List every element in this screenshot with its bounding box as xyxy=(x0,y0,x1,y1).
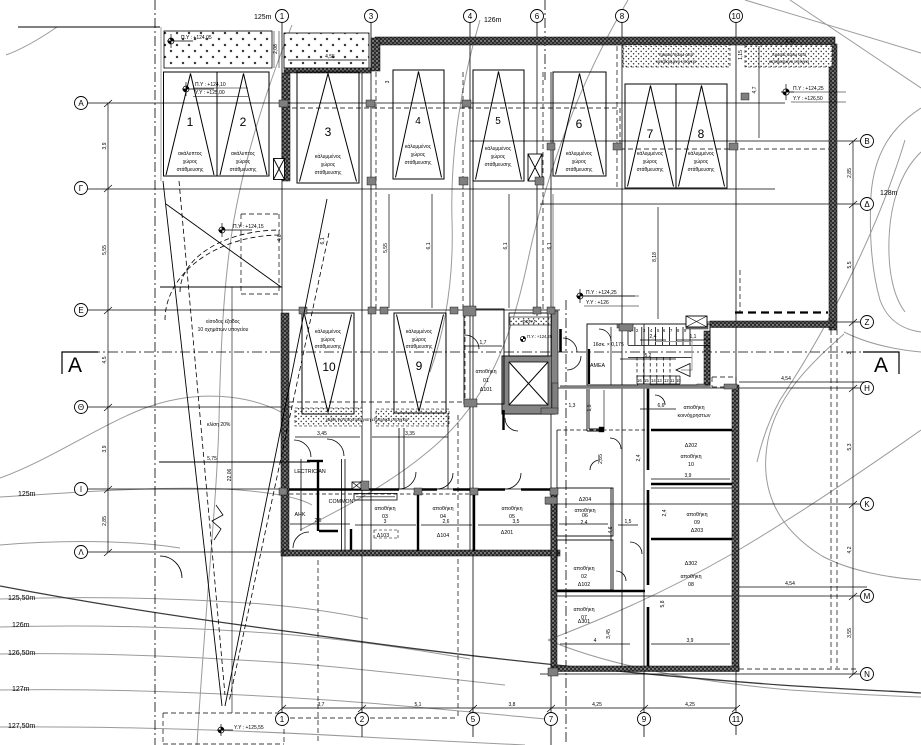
svg-text:4,2: 4,2 xyxy=(847,546,853,553)
svg-text:κατεβασμένο υπόγειο: κατεβασμένο υπόγειο xyxy=(769,59,810,64)
svg-text:Π.Υ : +124,25: Π.Υ : +124,25 xyxy=(586,290,617,296)
svg-text:1: 1 xyxy=(280,12,285,21)
svg-text:Y.Y : +126: Y.Y : +126 xyxy=(586,300,609,306)
svg-text:5,5: 5,5 xyxy=(847,261,853,268)
svg-text:7: 7 xyxy=(647,127,654,141)
svg-text:128m: 128m xyxy=(880,190,898,197)
svg-text:COMMON: COMMON xyxy=(329,499,354,505)
svg-text:2,08: 2,08 xyxy=(273,44,279,54)
svg-text:ακάλυπτος: ακάλυπτος xyxy=(178,150,202,157)
svg-text:στάθμευσης: στάθμευσης xyxy=(637,166,664,173)
svg-text:Μ: Μ xyxy=(864,592,871,601)
svg-text:6,1: 6,1 xyxy=(547,242,553,249)
svg-text:Δ102: Δ102 xyxy=(578,582,590,588)
svg-text:126,50m: 126,50m xyxy=(8,650,35,657)
svg-text:Y.Y : +125,55: Y.Y : +125,55 xyxy=(234,725,264,731)
svg-text:ακάλυπτος: ακάλυπτος xyxy=(231,150,255,157)
svg-text:2: 2 xyxy=(240,115,247,129)
svg-text:5,2: 5,2 xyxy=(645,353,652,359)
svg-text:5,8: 5,8 xyxy=(660,600,666,607)
svg-text:αποθήκη: αποθήκη xyxy=(680,453,701,460)
svg-text:1,1: 1,1 xyxy=(690,334,697,340)
svg-text:6,1: 6,1 xyxy=(503,242,509,249)
svg-text:κάλυμμένος: κάλυμμένος xyxy=(688,150,715,157)
svg-text:1,3: 1,3 xyxy=(569,403,576,409)
svg-text:4,44: 4,44 xyxy=(785,39,795,45)
svg-text:16σκ. × 0,175: 16σκ. × 0,175 xyxy=(593,342,624,348)
svg-text:4,54: 4,54 xyxy=(785,581,795,587)
svg-text:5,3: 5,3 xyxy=(847,443,853,450)
svg-text:Δ104: Δ104 xyxy=(437,533,449,539)
svg-text:χώρος: χώρος xyxy=(491,153,506,160)
svg-text:3,5: 3,5 xyxy=(513,519,520,525)
svg-text:A: A xyxy=(874,354,888,377)
svg-text:2,4: 2,4 xyxy=(636,454,642,461)
svg-text:10: 10 xyxy=(688,462,694,468)
svg-text:6,1: 6,1 xyxy=(426,242,432,249)
svg-text:15: 15 xyxy=(644,378,649,383)
svg-text:Δ301: Δ301 xyxy=(578,619,590,625)
svg-text:3: 3 xyxy=(847,351,853,354)
svg-text:Δ203: Δ203 xyxy=(691,528,703,534)
svg-text:χώρος: χώρος xyxy=(572,158,587,165)
svg-text:AHK: AHK xyxy=(295,512,306,518)
svg-text:127,50m: 127,50m xyxy=(8,723,35,730)
svg-text:09: 09 xyxy=(694,520,700,526)
svg-text:κάλυμμένος: κάλυμμένος xyxy=(485,145,512,152)
svg-text:3,7: 3,7 xyxy=(318,702,325,708)
svg-text:Λ: Λ xyxy=(78,548,84,557)
svg-text:2,4: 2,4 xyxy=(650,334,657,340)
svg-text:χώρος: χώρος xyxy=(412,336,427,343)
svg-text:7: 7 xyxy=(549,715,554,724)
svg-text:αποθήκη: αποθήκη xyxy=(686,511,707,518)
svg-text:125,50m: 125,50m xyxy=(8,595,35,602)
svg-text:2,6: 2,6 xyxy=(443,519,450,525)
svg-text:3: 3 xyxy=(385,80,391,83)
svg-text:αποθήκη: αποθήκη xyxy=(683,404,704,411)
svg-text:στάθμευσης: στάθμευσης xyxy=(688,166,715,173)
svg-text:9: 9 xyxy=(642,715,647,724)
svg-text:5: 5 xyxy=(495,116,501,127)
svg-text:13: 13 xyxy=(657,378,662,383)
svg-text:10: 10 xyxy=(322,360,336,374)
svg-text:Δ201: Δ201 xyxy=(501,530,513,536)
svg-text:6: 6 xyxy=(535,12,540,21)
svg-text:125m: 125m xyxy=(18,491,36,498)
svg-text:ΑΜΕΑ: ΑΜΕΑ xyxy=(590,363,605,369)
svg-text:3,8: 3,8 xyxy=(509,702,516,708)
svg-text:αποθήκη: αποθήκη xyxy=(501,505,522,512)
svg-text:κάλυμμένος: κάλυμμένος xyxy=(566,150,593,157)
svg-text:11: 11 xyxy=(732,715,741,724)
svg-text:Π.Υ : +124,10: Π.Υ : +124,10 xyxy=(195,82,226,88)
svg-text:χώρος: χώρος xyxy=(321,336,336,343)
svg-text:4: 4 xyxy=(468,12,473,21)
svg-text:Π.Υ : +124,25: Π.Υ : +124,25 xyxy=(793,86,824,92)
svg-text:A: A xyxy=(68,354,82,377)
svg-text:6: 6 xyxy=(576,117,583,131)
svg-text:κάλυμμένος: κάλυμμένος xyxy=(637,150,664,157)
svg-text:3,45: 3,45 xyxy=(606,629,612,639)
svg-text:4,5: 4,5 xyxy=(102,356,108,363)
svg-text:1: 1 xyxy=(280,715,285,724)
svg-text:χώρος: χώρος xyxy=(411,151,426,158)
svg-text:κάλυμμένος: κάλυμμένος xyxy=(315,153,342,160)
svg-text:στάθμευσης: στάθμευσης xyxy=(405,159,432,166)
svg-text:5,75: 5,75 xyxy=(207,456,217,462)
svg-text:κοινόχρηστων: κοινόχρηστων xyxy=(678,412,711,419)
svg-text:4,54: 4,54 xyxy=(781,376,791,382)
svg-text:3: 3 xyxy=(384,519,387,525)
svg-text:8: 8 xyxy=(620,12,625,21)
svg-text:χώρος: χώρος xyxy=(183,158,198,165)
svg-text:κάλυμμένος: κάλυμμένος xyxy=(405,143,432,150)
svg-text:Δ202: Δ202 xyxy=(685,443,697,449)
svg-text:Y.Y : +126,50: Y.Y : +126,50 xyxy=(793,96,823,102)
svg-text:ΦΩΤΑΓ: ΦΩΤΑΓ xyxy=(522,319,537,324)
svg-text:126m: 126m xyxy=(484,17,502,24)
svg-text:Ζ: Ζ xyxy=(865,318,870,327)
svg-text:4: 4 xyxy=(415,116,421,127)
svg-text:02: 02 xyxy=(581,574,587,580)
svg-text:1,7: 1,7 xyxy=(480,340,487,346)
svg-text:2,85: 2,85 xyxy=(847,168,853,178)
svg-text:1: 1 xyxy=(187,115,194,129)
svg-text:2,4: 2,4 xyxy=(662,509,668,516)
svg-text:5,55: 5,55 xyxy=(102,245,108,255)
svg-text:χώρος: χώρος xyxy=(236,158,251,165)
svg-text:9: 9 xyxy=(416,359,423,373)
svg-text:3: 3 xyxy=(325,125,332,139)
svg-text:στάθμευσης: στάθμευσης xyxy=(315,169,342,176)
svg-text:Γ: Γ xyxy=(79,184,84,193)
svg-text:6,1: 6,1 xyxy=(320,237,326,244)
svg-text:στάθμευσης: στάθμευσης xyxy=(230,166,257,173)
svg-text:κάλυμμένος: κάλυμμένος xyxy=(315,328,342,335)
svg-text:1,15: 1,15 xyxy=(738,50,744,60)
svg-text:3,55: 3,55 xyxy=(847,628,853,638)
svg-text:2,85: 2,85 xyxy=(598,454,604,464)
svg-text:πρασιά πάνω από: πρασιά πάνω από xyxy=(659,52,694,57)
svg-text:Δ: Δ xyxy=(864,200,870,209)
svg-text:16: 16 xyxy=(637,378,642,383)
svg-text:14: 14 xyxy=(651,378,656,383)
svg-text:22,06: 22,06 xyxy=(227,469,233,482)
svg-text:χαλίκι για αποστράγγιση εξωτερ: χαλίκι για αποστράγγιση εξωτερικά υπογεί… xyxy=(326,417,409,422)
svg-text:κάλυμμένος: κάλυμμένος xyxy=(406,328,433,335)
svg-text:2,4: 2,4 xyxy=(581,520,588,526)
svg-text:Δ103: Δ103 xyxy=(377,533,389,539)
svg-text:στάθμευσης: στάθμευσης xyxy=(177,166,204,173)
svg-text:11: 11 xyxy=(670,378,675,383)
svg-text:αποθήκη: αποθήκη xyxy=(573,565,594,572)
svg-text:10: 10 xyxy=(676,378,681,383)
svg-text:4,55: 4,55 xyxy=(325,54,335,60)
svg-text:Δ302: Δ302 xyxy=(685,561,697,567)
svg-text:Ν: Ν xyxy=(864,670,870,679)
svg-text:Ε: Ε xyxy=(78,306,83,315)
svg-text:Y.Y : +125,00: Y.Y : +125,00 xyxy=(195,90,225,96)
svg-text:Ι: Ι xyxy=(80,485,82,494)
svg-text:2,85: 2,85 xyxy=(102,516,108,526)
svg-text:5: 5 xyxy=(471,715,476,724)
svg-text:Π.Υ : +124,15: Π.Υ : +124,15 xyxy=(233,224,264,230)
svg-text:3,9: 3,9 xyxy=(102,142,108,149)
svg-text:12: 12 xyxy=(664,378,669,383)
svg-text:αποθήκη: αποθήκη xyxy=(573,606,594,613)
svg-text:κλίση 20%: κλίση 20% xyxy=(207,422,231,428)
svg-text:3: 3 xyxy=(369,12,374,21)
svg-text:126m: 126m xyxy=(12,622,30,629)
svg-text:10 οχημάτων υπογείου: 10 οχημάτων υπογείου xyxy=(198,326,249,333)
svg-text:4: 4 xyxy=(594,638,597,644)
svg-text:Π.Υ : +124,05: Π.Υ : +124,05 xyxy=(181,35,212,41)
svg-text:4,6: 4,6 xyxy=(277,234,283,241)
svg-text:4,7: 4,7 xyxy=(752,86,758,93)
svg-text:αποθήκη: αποθήκη xyxy=(680,573,701,580)
svg-text:8,18: 8,18 xyxy=(652,252,658,262)
svg-text:3,35: 3,35 xyxy=(405,431,415,437)
svg-text:Δ101: Δ101 xyxy=(480,387,492,393)
svg-text:125m: 125m xyxy=(254,14,272,21)
svg-text:αποθήκη: αποθήκη xyxy=(432,505,453,512)
svg-text:08: 08 xyxy=(688,582,694,588)
svg-text:χώρος: χώρος xyxy=(321,161,336,168)
svg-text:127m: 127m xyxy=(12,686,30,693)
svg-text:στάθμευσης: στάθμευσης xyxy=(406,343,433,350)
svg-text:Α: Α xyxy=(78,99,84,108)
svg-text:στάθμευσης: στάθμευσης xyxy=(315,343,342,350)
svg-text:3,9: 3,9 xyxy=(102,445,108,452)
svg-text:1,5: 1,5 xyxy=(625,519,632,525)
svg-text:στάθμευσης: στάθμευσης xyxy=(566,166,593,173)
svg-text:χώρος: χώρος xyxy=(643,158,658,165)
svg-text:στάθμευσης: στάθμευσης xyxy=(485,161,512,168)
svg-text:4,25: 4,25 xyxy=(685,702,695,708)
svg-text:Β: Β xyxy=(864,137,869,146)
svg-text:Π.Υ.: +124,25: Π.Υ.: +124,25 xyxy=(527,334,553,339)
svg-text:8: 8 xyxy=(698,127,705,141)
svg-text:πρασιά πάνω από: πρασιά πάνω από xyxy=(772,52,807,57)
svg-text:2,6: 2,6 xyxy=(315,518,322,524)
svg-text:Η: Η xyxy=(864,384,870,393)
svg-text:01: 01 xyxy=(483,378,489,384)
svg-text:Κ: Κ xyxy=(864,500,870,509)
svg-text:χώρος: χώρος xyxy=(694,158,709,165)
svg-text:LECTRICIAN: LECTRICIAN xyxy=(294,469,326,475)
svg-text:Δ204: Δ204 xyxy=(579,497,591,503)
svg-text:10: 10 xyxy=(732,12,741,21)
svg-text:είσοδος έξοδος: είσοδος έξοδος xyxy=(206,318,240,325)
svg-text:4,25: 4,25 xyxy=(592,702,602,708)
svg-text:4,6: 4,6 xyxy=(608,526,614,533)
svg-text:αποθήκη: αποθήκη xyxy=(374,505,395,512)
svg-text:1,9: 1,9 xyxy=(587,404,593,411)
svg-text:5,55: 5,55 xyxy=(383,243,389,253)
svg-text:3,9: 3,9 xyxy=(685,473,692,479)
svg-text:3,9: 3,9 xyxy=(687,638,694,644)
svg-text:κατεβασμένο υπόγειο: κατεβασμένο υπόγειο xyxy=(656,59,697,64)
svg-text:06: 06 xyxy=(582,513,588,519)
svg-text:5,1: 5,1 xyxy=(415,702,422,708)
svg-text:Θ: Θ xyxy=(78,403,84,412)
svg-text:6,6: 6,6 xyxy=(658,403,665,409)
svg-text:3,45: 3,45 xyxy=(317,431,327,437)
svg-text:2: 2 xyxy=(360,715,365,724)
svg-text:αποθήκη: αποθήκη xyxy=(475,368,496,375)
